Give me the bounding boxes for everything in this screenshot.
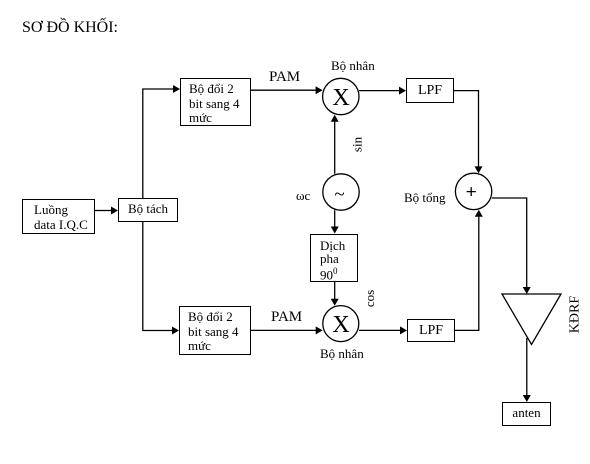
wire: summer -> right and down to amplifier — [492, 198, 527, 288]
oscillator circle — [323, 174, 359, 210]
label Bo nhan (top) — [331, 58, 375, 74]
arrowhead up into X1 bottom — [331, 115, 339, 122]
block: Luong data I.Q.C — [22, 199, 95, 234]
wire: oscillator -> phase shifter — [334, 210, 336, 227]
wire: Bo tach up and right to top converter — [143, 89, 173, 198]
wire: oscillator -> X1 (sin) — [334, 121, 336, 174]
wire: Bo tach down and right to bottom converter — [143, 222, 173, 331]
block: Bo tach — [118, 198, 178, 222]
wire: amplifier -> anten — [526, 338, 528, 395]
svg-text:X: X — [332, 312, 349, 338]
arrowhead down into anten — [523, 395, 531, 402]
arrowhead up into summer bottom — [475, 210, 483, 217]
multiplier circle X1 — [323, 78, 359, 114]
label Bo tong — [404, 190, 446, 206]
arrowhead down into phase shifter — [331, 227, 339, 234]
arrowhead into bottom converter — [172, 327, 179, 335]
label cos (rotated) — [362, 277, 377, 320]
label PAM (bottom) — [271, 309, 302, 326]
amplifier triangle — [502, 294, 561, 345]
summer circle — [455, 173, 491, 209]
wire: bottom converter -> X2 — [251, 329, 316, 331]
plus sign in summer — [467, 187, 476, 196]
arrowhead down into summer top — [475, 166, 483, 173]
svg-text:~: ~ — [334, 184, 344, 205]
label KDRF (rotated) — [568, 289, 583, 341]
arrowhead into LPF top — [399, 87, 406, 95]
label PAM (top) — [269, 69, 300, 86]
arrowhead down into X2 top — [331, 299, 339, 306]
arrowhead down into amplifier — [523, 287, 531, 294]
block: LPF (bottom) — [407, 319, 455, 342]
block: anten — [502, 402, 551, 426]
wire: converter -> multiplier X1 (PAM) — [251, 89, 316, 91]
wire: X1 -> LPF top — [359, 90, 400, 92]
label omega-c — [296, 188, 310, 204]
multiplier circle X2 — [323, 306, 359, 342]
block: LPF (top) — [406, 78, 454, 103]
arrowhead into LPF bottom — [400, 326, 407, 334]
wire: LPF top -> down to summer — [454, 91, 479, 167]
block: Bo doi 2 bit sang 4 muc (top) — [180, 78, 251, 126]
wire: phase shifter -> X2 (cos) — [334, 282, 336, 300]
arrowhead into top converter — [173, 85, 180, 93]
label Bo nhan (bottom) — [320, 346, 364, 362]
title — [22, 19, 118, 37]
wire: Luong -> Bo tach — [95, 210, 111, 212]
wire: LPF bottom -> up to summer — [455, 216, 479, 330]
arrowhead into Bo tach — [111, 207, 118, 215]
label sin (rotated) — [350, 124, 365, 166]
block: Dich pha 90 — [310, 234, 358, 282]
arrowhead into X2 left — [316, 326, 323, 334]
arrowhead into X1 left — [316, 86, 323, 94]
svg-text:X: X — [332, 85, 349, 111]
wire: X2 -> LPF bottom — [359, 329, 401, 331]
block: Bo doi 2 bit sang 4 muc (bottom) — [179, 306, 251, 355]
